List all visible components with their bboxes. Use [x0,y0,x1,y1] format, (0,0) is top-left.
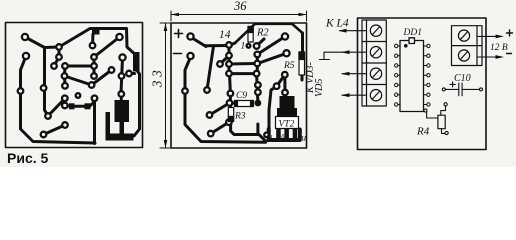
svg-text:DD1: DD1 [403,28,422,38]
svg-text:33: 33 [150,67,165,89]
svg-text:R5: R5 [283,61,295,71]
svg-text:К L4: К L4 [325,18,349,30]
svg-text:з: з [269,133,273,140]
svg-text:14: 14 [219,29,231,41]
svg-text:С9: С9 [236,91,247,101]
svg-text:12 В: 12 В [490,43,508,53]
svg-text:VD5: VD5 [314,79,325,97]
svg-text:1: 1 [241,42,246,52]
svg-text:VT2: VT2 [279,120,295,130]
svg-text:Рис. 5: Рис. 5 [7,150,49,166]
svg-text:R4: R4 [416,126,430,138]
svg-text:и: и [302,133,307,143]
svg-text:С10: С10 [454,73,471,84]
svg-text:R3: R3 [234,112,246,122]
svg-text:R2: R2 [256,28,269,39]
svg-text:36: 36 [233,0,247,13]
